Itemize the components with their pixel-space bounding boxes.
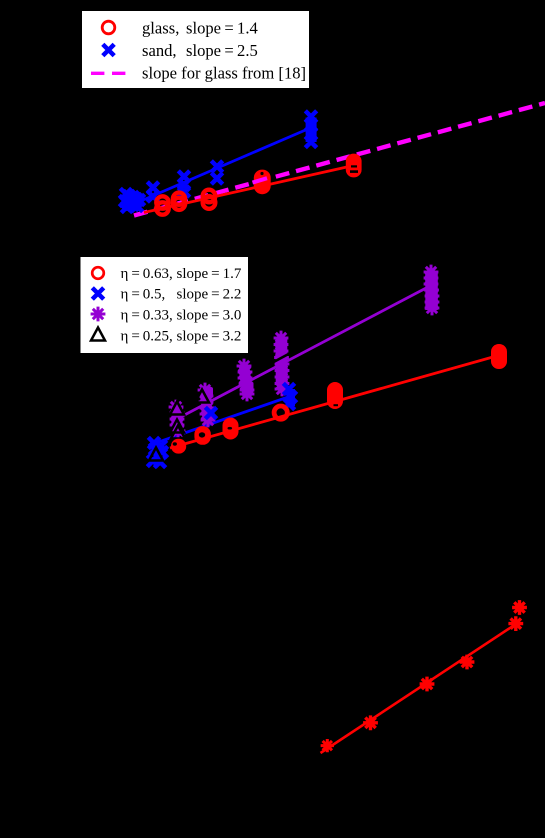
blue fit line slope 2.2 [150,396,291,445]
legend2 purple asterisk marker [91,307,106,322]
blue X datum overlapping cluster A [205,407,216,418]
svg-text:η = 0.25,: η = 0.25, [121,329,173,345]
purple asterisk cluster A [198,383,216,428]
red circle trio m3 [223,418,239,440]
red fit line bottom [321,623,518,753]
black triangle over blue cluster [149,448,163,461]
svg-text:glass,: glass, [142,19,179,38]
legend1 blue X marker [103,44,114,55]
purple asterisk cluster E [169,400,186,439]
blue fit line sand slope 2.5 [135,129,309,204]
blue X bar cluster 5 (top right) [305,111,316,148]
legend2 blue X marker [92,288,103,299]
red asterisk b3 [420,677,435,692]
purple asterisk cluster C [424,265,440,316]
red circle pair 5 [346,154,362,178]
red circle blob 4 [253,170,271,195]
blue X trio 3 [178,171,189,197]
legend2 red circle marker [92,267,104,279]
black triangle over cluster A [195,390,209,403]
svg-text:slope = 1.4: slope = 1.4 [186,19,258,38]
black dash fit line slope 3.2 (visible only as cutouts) [160,345,310,426]
magenta dashed fit line (slope for glass from [18]) [134,103,545,216]
svg-text:η = 0.33,: η = 0.33, [121,308,173,324]
blue X pair 2 [147,182,158,202]
svg-text:slope = 3.2: slope = 3.2 [177,329,242,345]
svg-text:slope = 2.5: slope = 2.5 [186,41,258,60]
svg-text:slope = 1.7: slope = 1.7 [177,266,242,282]
legend1 red circle marker [102,21,115,34]
svg-text:sand,: sand, [142,41,177,60]
red circle pair 1 (glass data) [156,196,168,214]
red circle quad m6 [491,344,507,369]
svg-text:η = 0.5,: η = 0.5, [121,287,166,303]
blue X bottom-left cluster [147,437,167,467]
red asterisk b6 [512,600,527,615]
legend2 black triangle marker [91,328,105,341]
red circle pair 2 [173,193,185,210]
legend box 1 [82,11,309,88]
svg-text:slope = 2.2: slope = 2.2 [177,287,242,303]
blue X pair 4 [211,161,222,184]
red fit line glass slope 1.4 [144,166,354,213]
red asterisk b5 [508,616,523,631]
red circle pair m1 [171,439,186,454]
red circle pair m2 [194,426,211,445]
blue X cluster 1 (sand data) [119,188,144,212]
red fit line slope 1.7 [170,355,500,448]
red asterisk b2 [363,715,378,730]
red circle pair m5 [327,382,343,409]
red asterisk b1 [321,739,334,752]
svg-text:slope = 3.0: slope = 3.0 [177,308,242,324]
red circle single m4 [274,406,287,419]
purple asterisk cluster B [274,331,290,397]
red asterisk b4 [460,655,475,670]
legend box 2 [81,257,249,353]
purple asterisk cluster D [237,359,255,402]
svg-text:η = 0.63,: η = 0.63, [121,266,173,282]
blue X end cluster [283,383,296,409]
black dash cut over cluster B [268,350,296,365]
purple fit line slope 3.0 [173,287,429,422]
legend1 magenta dash marker [91,72,126,75]
red circle pair 3 [203,190,216,209]
black triangles over cluster E [170,402,185,439]
svg-text:slope for glass from [18]: slope for glass from [18] [142,64,306,83]
